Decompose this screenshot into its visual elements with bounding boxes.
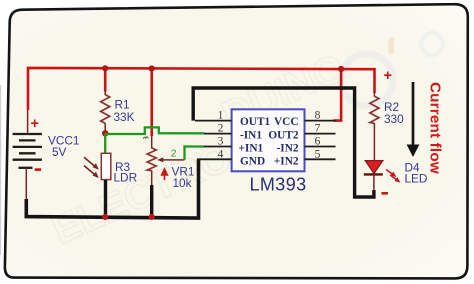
wire: red drop to VR1	[150, 68, 153, 136]
annotation: current flow arrow	[407, 82, 420, 157]
svg-text:VCC: VCC	[274, 116, 298, 128]
svg-text:GND: GND	[240, 156, 265, 168]
pin numbers right	[315, 110, 321, 161]
svg-text:33K: 33K	[114, 110, 135, 124]
pin 2 stub	[204, 133, 232, 135]
label: VCC1 5V	[48, 134, 79, 159]
svg-text:5V: 5V	[52, 145, 67, 159]
battery VCC1	[13, 110, 42, 200]
resistor R2	[370, 92, 379, 161]
svg-text:2: 2	[171, 148, 177, 160]
wire: LDR to ground rail	[104, 180, 107, 217]
wire hop marker	[143, 137, 148, 139]
label: battery minus	[35, 168, 41, 171]
node: R1 bottom junction	[102, 130, 108, 136]
node: rail/pin8 junction	[338, 66, 344, 72]
IC pin name labels	[239, 116, 299, 168]
label: minus at LED	[382, 192, 388, 195]
annotation: VR1 adjust arrow	[162, 169, 168, 180]
wire: green to pin 2 (-IN1) with hop	[106, 127, 205, 134]
photo edge line (decorative)	[0, 85, 2, 255]
svg-text:Current flow: Current flow	[427, 82, 444, 174]
pin 4 stub	[197, 158, 232, 160]
pin 7 stub	[305, 133, 336, 135]
label: R2 330	[384, 100, 404, 126]
svg-text:6: 6	[315, 136, 321, 148]
watermark logo (decorative)	[46, 33, 443, 253]
svg-text:+IN2: +IN2	[274, 156, 299, 168]
label: R3 LDR	[114, 160, 138, 185]
node: rail/R1 junction	[102, 65, 108, 71]
svg-text:-IN1: -IN1	[240, 129, 262, 141]
LED D4	[364, 161, 401, 191]
wire: red branch to pin 8 VCC	[334, 69, 342, 121]
svg-text:+: +	[31, 116, 39, 132]
svg-text:330: 330	[384, 112, 404, 126]
svg-text:+: +	[384, 68, 392, 84]
LDR R3	[84, 153, 111, 179]
svg-text:+IN1: +IN1	[239, 143, 264, 155]
resistor R1	[101, 91, 110, 131]
node: LDR/ground junction	[102, 214, 108, 220]
node: VR1/ground junction	[149, 214, 155, 220]
svg-text:OUT1: OUT1	[240, 116, 270, 128]
wire: red drop to R1	[104, 68, 107, 91]
label: D4 LED	[405, 160, 428, 185]
svg-text:LDR: LDR	[114, 170, 138, 184]
node: rail/VR1 junction	[149, 65, 155, 71]
svg-text:OUT2: OUT2	[268, 129, 298, 141]
pin 6 stub	[305, 146, 336, 148]
svg-text:LM393: LM393	[250, 175, 307, 195]
op-amp U1 LM393	[195, 109, 336, 171]
wire: +5V top rail	[28, 68, 375, 110]
svg-text:4: 4	[218, 148, 224, 160]
svg-text:3: 3	[218, 136, 224, 148]
wire: ground rail	[26, 159, 198, 218]
wire: OUT1 to LED cathode (black)	[193, 88, 374, 197]
svg-text:5: 5	[315, 148, 321, 160]
wire: green R1 to LDR	[104, 134, 106, 154]
pin 5 stub	[305, 158, 336, 160]
svg-text:-IN2: -IN2	[277, 143, 299, 155]
wire: green wiper to pin 3 (+IN1)	[185, 147, 205, 160]
pin 8 stub	[305, 120, 336, 122]
label: R1 33K	[114, 98, 135, 124]
svg-text:7: 7	[315, 123, 321, 135]
svg-text:10k: 10k	[173, 176, 192, 190]
svg-text:8: 8	[315, 110, 321, 122]
wire: VR1 to ground rail	[150, 185, 153, 217]
pin numbers left	[218, 110, 224, 161]
potentiometer VR1	[147, 136, 184, 187]
pin 1 stub	[195, 120, 232, 122]
svg-text:1: 1	[218, 110, 224, 122]
svg-text:LED: LED	[405, 172, 428, 186]
svg-text:2: 2	[218, 123, 224, 135]
label: VR1 10k	[172, 164, 195, 190]
pin 3 stub	[204, 146, 232, 148]
